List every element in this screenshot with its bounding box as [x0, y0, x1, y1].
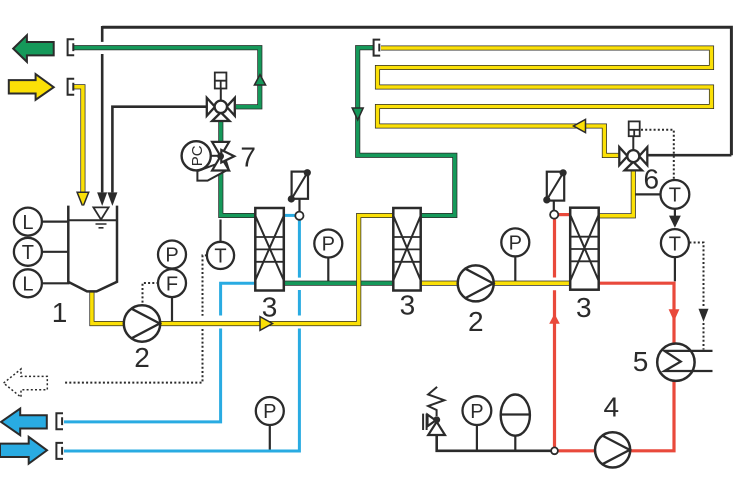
svg-text:T: T	[669, 233, 681, 255]
svg-text:L: L	[22, 274, 33, 296]
svg-text:3: 3	[262, 292, 278, 323]
svg-text:F: F	[166, 273, 178, 295]
svg-text:P: P	[165, 245, 178, 267]
svg-text:5: 5	[633, 346, 649, 377]
svg-text:P: P	[509, 233, 522, 255]
svg-text:P: P	[263, 401, 276, 423]
svg-text:3: 3	[576, 292, 592, 323]
svg-text:6: 6	[644, 164, 660, 195]
svg-text:T: T	[214, 246, 226, 268]
svg-text:7: 7	[240, 142, 256, 173]
svg-text:2: 2	[468, 306, 484, 337]
svg-text:P: P	[470, 401, 483, 423]
svg-text:4: 4	[604, 392, 620, 423]
svg-text:P: P	[322, 234, 335, 256]
svg-text:T: T	[669, 185, 681, 207]
svg-text:PC: PC	[189, 145, 206, 166]
svg-text:T: T	[22, 242, 34, 264]
svg-text:2: 2	[134, 342, 150, 373]
svg-text:3: 3	[400, 290, 416, 321]
svg-text:L: L	[22, 212, 33, 234]
svg-text:1: 1	[52, 297, 68, 328]
